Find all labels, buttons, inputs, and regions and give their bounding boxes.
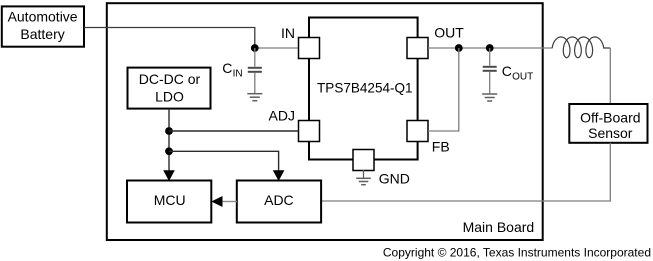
- node dot ADC net: [165, 147, 173, 155]
- wire node to ADC: [169, 151, 279, 171]
- wire ADC to MCU: [222, 201, 237, 203]
- main board outline: [107, 3, 543, 240]
- node dot FB tap: [455, 44, 463, 52]
- svg-text:Sensor: Sensor: [588, 125, 633, 141]
- wire FB loop: [428, 48, 459, 131]
- svg-text:Main Board: Main Board: [463, 219, 535, 235]
- svg-text:Battery: Battery: [20, 26, 64, 42]
- svg-text:TPS7B4254-Q1: TPS7B4254-Q1: [317, 80, 413, 96]
- svg-text:Automotive: Automotive: [8, 9, 78, 25]
- node dot ADJ net: [165, 127, 173, 135]
- svg-text:ADJ: ADJ: [269, 108, 295, 124]
- svg-text:FB: FB: [432, 139, 450, 155]
- ADC box: [237, 181, 321, 223]
- wire battery to corner: [84, 28, 255, 49]
- svg-text:GND: GND: [379, 171, 410, 187]
- node dot COUT: [486, 44, 494, 52]
- battery box: [2, 6, 84, 46]
- arrow into ADC: [273, 170, 285, 181]
- wire coil to sensor: [609, 48, 611, 104]
- svg-text:Off-Board: Off-Board: [580, 110, 640, 126]
- svg-text:IN: IN: [233, 69, 243, 80]
- capacitor COUT: [483, 48, 497, 93]
- svg-text:Copyright © 2016, Texas Instru: Copyright © 2016, Texas Instruments Inco…: [383, 246, 651, 260]
- wire OUT to coil: [428, 47, 553, 49]
- ground CIN: [247, 94, 262, 101]
- svg-text:C: C: [222, 60, 232, 76]
- MCU box: [127, 181, 211, 223]
- wire sensor return to ADC: [321, 143, 610, 201]
- svg-text:ADC: ADC: [264, 192, 294, 208]
- svg-text:DC-DC or: DC-DC or: [139, 71, 201, 87]
- off-board sensor box: [569, 104, 647, 143]
- pin OUT: [407, 38, 428, 59]
- svg-text:IN: IN: [281, 25, 295, 41]
- capacitor CIN: [248, 48, 262, 93]
- inductor coil: [552, 37, 610, 58]
- TPS7B4254-Q1 block: [309, 18, 418, 160]
- svg-text:OUT: OUT: [512, 72, 533, 83]
- ground COUT: [482, 94, 497, 101]
- arrow into MCU: [163, 170, 175, 181]
- svg-text:LDO: LDO: [155, 89, 184, 105]
- svg-text:MCU: MCU: [154, 192, 186, 208]
- svg-text:C: C: [502, 63, 512, 79]
- pin ADJ: [299, 121, 320, 142]
- svg-text:OUT: OUT: [434, 25, 464, 41]
- wire node to IN: [255, 47, 299, 49]
- wire DC-DC down: [168, 109, 170, 172]
- pin IN: [299, 38, 320, 59]
- ground GND pin: [356, 170, 371, 185]
- pin GND: [353, 150, 374, 171]
- DC-DC box: [128, 68, 211, 109]
- wire node to ADJ: [169, 130, 299, 132]
- pin FB: [407, 121, 428, 142]
- arrow ADC to MCU: [211, 196, 222, 207]
- node dot CIN: [251, 44, 259, 52]
